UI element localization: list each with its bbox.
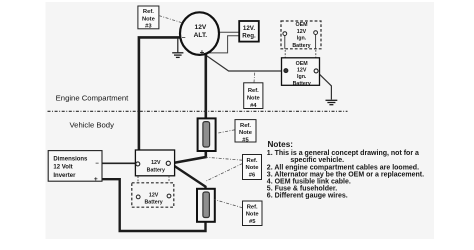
12V battery (house, alternate position dashed) xyxy=(132,183,174,207)
svg-text:Engine Compartment: Engine Compartment xyxy=(56,93,130,102)
svg-text:Battery: Battery xyxy=(147,167,165,173)
divider engine compartment / vehicle body xyxy=(48,110,348,112)
svg-text:Ref.: Ref. xyxy=(240,123,251,129)
svg-text:+: + xyxy=(94,176,98,183)
wire: alternator output to regulator xyxy=(219,31,240,33)
ref note #3 box xyxy=(138,6,159,30)
svg-text:Ign.: Ign. xyxy=(297,36,307,42)
svg-text:4. OEM fusible link cable.: 4. OEM fusible link cable. xyxy=(267,179,351,186)
wire: 12V battery to fuse F2 xyxy=(171,164,206,193)
svg-text:#3: #3 xyxy=(145,24,152,30)
svg-text:Ref.: Ref. xyxy=(143,9,154,15)
svg-text:12 Volt: 12 Volt xyxy=(53,165,72,171)
svg-text:5. Fuse & fuseholder.: 5. Fuse & fuseholder. xyxy=(267,186,337,193)
wire: fuse F2 return loop to inverter xyxy=(102,179,206,231)
svg-text:Ref.: Ref. xyxy=(247,204,258,210)
leader: ref note #6 to fuse wires xyxy=(206,157,243,160)
svg-text:ALT.: ALT. xyxy=(194,32,208,39)
svg-text:Battery: Battery xyxy=(144,200,162,206)
svg-text:Note: Note xyxy=(246,212,260,218)
svg-text:Notes:: Notes: xyxy=(268,140,293,149)
regulator U1 12V Reg xyxy=(239,21,259,42)
leader: ref note #4 to cable xyxy=(253,73,256,83)
ground (alternator) xyxy=(172,53,183,58)
svg-text:3. Alternator may be the OEM: 3. Alternator may be the OEM or a replac… xyxy=(267,172,424,179)
wire: plus node to OEM battery xyxy=(205,54,284,71)
wire: plus node down to fuse F1 xyxy=(171,54,206,164)
fuse F2 xyxy=(197,189,215,222)
svg-text:Ref.: Ref. xyxy=(248,88,259,94)
svg-text:Battery: Battery xyxy=(293,81,311,87)
svg-text:12V: 12V xyxy=(297,29,307,35)
notes text block xyxy=(267,140,424,200)
leader: dashed battery to installed battery xyxy=(284,50,286,58)
ref note #5 box (lower) xyxy=(243,201,263,226)
svg-text:+: + xyxy=(200,48,205,57)
svg-text:Reg.: Reg. xyxy=(242,33,256,40)
wire: inverter to 12V battery xyxy=(102,162,137,164)
svg-text:Dimensions: Dimensions xyxy=(53,156,88,162)
leader: ref note #5 upper to fuse F1 xyxy=(216,130,235,134)
svg-text:Note: Note xyxy=(142,16,156,22)
svg-text:Note: Note xyxy=(239,130,253,136)
terminal posts xyxy=(284,35,286,49)
ref note #6 box xyxy=(243,155,262,180)
battery OEM 12V Ign (alternate position, dashed) xyxy=(281,21,321,49)
scanned page background xyxy=(46,2,435,239)
wire: OEM battery to chassis ground xyxy=(318,72,332,99)
svg-text:12V: 12V xyxy=(297,68,307,74)
fuse F1 xyxy=(198,118,216,151)
svg-text:12V: 12V xyxy=(149,192,159,198)
svg-text:OEM: OEM xyxy=(296,61,309,67)
svg-text:−: − xyxy=(95,161,99,167)
svg-text:Note: Note xyxy=(246,165,260,171)
leader: ref note #5 lower to fuse F2 xyxy=(215,200,243,208)
wire: heavy cable alternator negative to 12V battery xyxy=(139,37,180,162)
svg-text:#5: #5 xyxy=(249,219,256,225)
svg-text:#5: #5 xyxy=(242,137,249,143)
svg-text:1. This is a general concept d: 1. This is a general concept drawing, no… xyxy=(267,150,419,157)
svg-text:Inverter: Inverter xyxy=(53,173,76,179)
svg-text:Note: Note xyxy=(247,96,261,102)
12V battery (house, installed) xyxy=(135,150,174,176)
svg-text:Ign.: Ign. xyxy=(297,74,307,80)
svg-text:−: − xyxy=(182,35,186,42)
svg-text:12V.: 12V. xyxy=(243,25,255,32)
svg-text:Ref.: Ref. xyxy=(247,158,258,164)
svg-text:12V: 12V xyxy=(151,160,161,166)
svg-text:OEM: OEM xyxy=(295,22,308,28)
leader: ref note #3 to alternator xyxy=(159,16,182,23)
svg-text:Vehicle Body: Vehicle Body xyxy=(69,120,114,129)
svg-text:2. All engine compartment cabl: 2. All engine compartment cables are loo… xyxy=(267,165,419,172)
alternator ALT xyxy=(180,12,219,55)
svg-text:#6: #6 xyxy=(249,172,256,178)
inverter box xyxy=(48,151,102,184)
svg-text:12V: 12V xyxy=(195,24,207,31)
svg-text:specific vehicle.: specific vehicle. xyxy=(290,157,344,164)
svg-text:#4: #4 xyxy=(250,103,257,109)
ref note #5 box (upper) xyxy=(235,120,256,144)
wire: alternator ground stub xyxy=(177,38,179,52)
svg-text:Battery: Battery xyxy=(292,43,310,49)
node: alternator plus junction xyxy=(204,52,207,55)
leader: house battery to alternate battery xyxy=(137,176,139,182)
battery OEM 12V Ign (installed) xyxy=(282,58,320,87)
wire: plus node to regulator xyxy=(204,36,239,53)
ground (OEM battery) xyxy=(326,100,338,104)
svg-text:6. Different gauge wires.: 6. Different gauge wires. xyxy=(267,193,348,200)
ref note #4 box xyxy=(244,83,263,109)
